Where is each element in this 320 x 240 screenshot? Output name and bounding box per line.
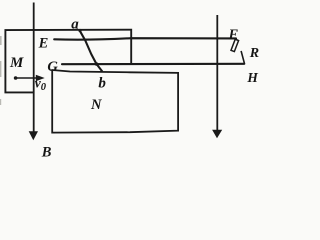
resistor R bbox=[231, 39, 244, 64]
B field arrow left bbox=[29, 3, 38, 141]
rod-rail contact blob bbox=[95, 62, 98, 65]
edge smudges (scan artifacts) bbox=[0, 36, 2, 105]
svg-text:a: a bbox=[71, 17, 79, 33]
block M outline bbox=[5, 30, 131, 93]
B field arrow right bbox=[212, 15, 222, 138]
velocity v0 arrow bbox=[14, 75, 45, 81]
svg-text:R: R bbox=[249, 46, 259, 61]
rail E-F (top rail) bbox=[54, 38, 236, 39]
svg-text:b: b bbox=[98, 76, 106, 92]
svg-text:M: M bbox=[9, 55, 24, 71]
rod top contact blob bbox=[78, 29, 81, 32]
svg-text:H: H bbox=[246, 70, 258, 85]
svg-text:N: N bbox=[90, 97, 102, 113]
rail G-H (lower rail) bbox=[62, 63, 244, 65]
svg-text:B: B bbox=[41, 144, 52, 159]
board N outline bbox=[52, 70, 178, 133]
svg-text:E: E bbox=[38, 36, 49, 52]
rod ab bbox=[79, 30, 102, 72]
